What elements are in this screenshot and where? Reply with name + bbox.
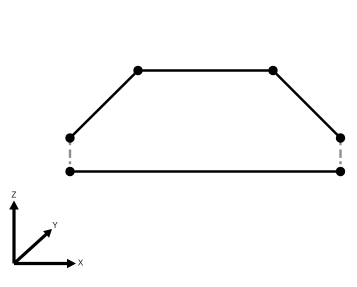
axis Z arrowhead (9, 201, 19, 210)
node bottom-right (336, 167, 345, 176)
edge bottom (bottom-left to bottom-right) (70, 170, 341, 173)
edge left diagonal (mid-left to top-left) (70, 71, 138, 139)
edge right diagonal (top-right to mid-right) (273, 71, 341, 139)
svg-text:X: X (78, 259, 84, 268)
node mid-left (65, 133, 74, 142)
node mid-right (336, 133, 345, 142)
svg-text:Y: Y (52, 221, 58, 230)
axis X arrowhead (67, 259, 76, 269)
axis X shaft (14, 262, 68, 265)
node top-left (133, 66, 142, 75)
axis Y arrowhead (43, 229, 52, 238)
svg-text:Z: Z (12, 191, 17, 200)
node bottom-left (65, 167, 74, 176)
dashed line left (node mid-left to node bottom-left) (69, 140, 71, 164)
axis Z shaft (12, 208, 15, 264)
dashed line right (node mid-right to node bottom-right) (339, 140, 341, 164)
node top-right (268, 66, 277, 75)
edge top (top-left to top-right) (138, 69, 273, 72)
axis Y shaft (14, 234, 47, 264)
